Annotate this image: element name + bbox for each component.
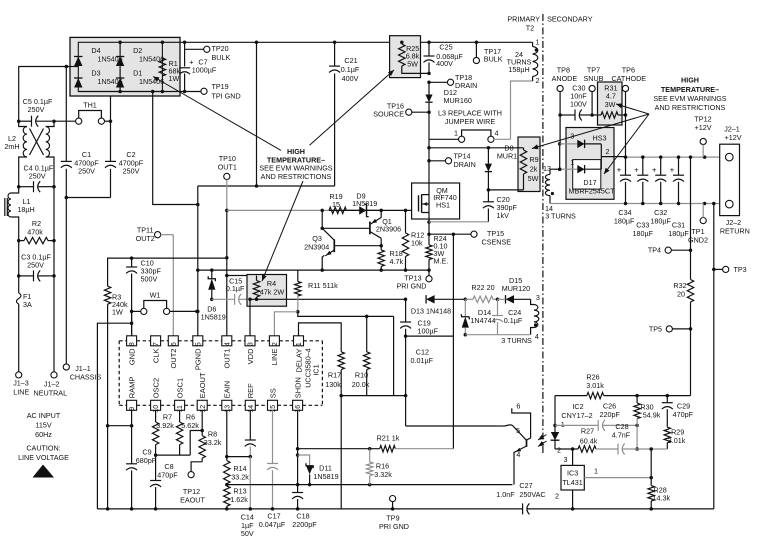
resistor R28 14.3k bbox=[648, 447, 670, 510]
svg-text:1kV: 1kV bbox=[497, 211, 510, 220]
svg-text:1: 1 bbox=[594, 466, 598, 475]
wire return sense column bbox=[712, 204, 716, 509]
fuse F1 3A bbox=[16, 241, 32, 372]
optocoupler arrows bbox=[538, 435, 547, 447]
diode D6 1N5819 bbox=[201, 270, 226, 321]
resistor R30 54.9k bbox=[634, 396, 661, 451]
svg-text:250V: 250V bbox=[123, 167, 140, 176]
svg-text:3.01k: 3.01k bbox=[586, 381, 604, 390]
svg-text:W1: W1 bbox=[150, 291, 161, 300]
svg-text:5W: 5W bbox=[407, 59, 418, 68]
svg-text:250V: 250V bbox=[29, 172, 46, 181]
wire bridge ac right column bbox=[109, 96, 113, 123]
svg-text:+: + bbox=[617, 166, 622, 175]
capacitor C26 220pF bbox=[555, 402, 639, 431]
capacitor C14 1uF 50V bbox=[227, 410, 256, 538]
svg-text:OUT1: OUT1 bbox=[223, 349, 232, 369]
wire bus drop x=256.5 bbox=[198, 41, 258, 188]
capacitor C2 4700pF 250V bbox=[65, 121, 144, 199]
resistor R24 0.10 3W M.E. bbox=[426, 234, 448, 270]
svg-text:13: 13 bbox=[543, 164, 551, 173]
wire out1 row y=210.4 bbox=[227, 209, 406, 211]
svg-text:2: 2 bbox=[272, 342, 279, 346]
svg-text:OUT2: OUT2 bbox=[136, 234, 155, 243]
jumper L3 replace with jumper wire bbox=[429, 109, 511, 143]
test point TP7 SNUB bbox=[584, 66, 604, 116]
svg-text:LINE VOLTAGE: LINE VOLTAGE bbox=[18, 453, 69, 462]
wire led cathode link bbox=[555, 447, 574, 451]
capacitor C24 0.1uF bbox=[492, 299, 523, 334]
junction dots bridge bbox=[118, 41, 186, 94]
svg-text:5W: 5W bbox=[528, 174, 539, 183]
svg-text:18µH: 18µH bbox=[17, 205, 34, 214]
wire +12V rail bbox=[624, 155, 726, 159]
test point TP15 CSENSE bbox=[429, 229, 511, 247]
svg-text:16: 16 bbox=[295, 405, 302, 413]
wire snubber row y=147.8 bbox=[429, 147, 518, 149]
resistor R32 20 bbox=[673, 280, 693, 303]
svg-text:ANODE: ANODE bbox=[552, 74, 578, 83]
svg-text:5: 5 bbox=[195, 342, 202, 346]
capacitor C17 0.047uF bbox=[259, 410, 286, 529]
test point TP12 EAOUT bbox=[180, 462, 205, 505]
svg-text:HS1: HS1 bbox=[436, 201, 450, 210]
shaded box R31 bbox=[598, 82, 623, 125]
diode D11 1N5819 bbox=[298, 455, 339, 486]
svg-text:1: 1 bbox=[561, 420, 565, 429]
connector J2-2 RETURN bbox=[720, 200, 750, 235]
svg-text:54.9k: 54.9k bbox=[643, 411, 661, 420]
svg-text:6: 6 bbox=[171, 342, 178, 346]
svg-text:158µH: 158µH bbox=[508, 65, 529, 74]
resistor R12 10k bbox=[402, 210, 424, 270]
capacitor C25 0.068uF 400V bbox=[424, 43, 464, 76]
svg-text:1: 1 bbox=[454, 129, 458, 138]
svg-text:1N5819: 1N5819 bbox=[313, 472, 338, 481]
jumper W1 bbox=[132, 291, 199, 315]
optocoupler IC2 transistor side bbox=[512, 402, 531, 485]
svg-text:IC1: IC1 bbox=[312, 364, 321, 375]
svg-text:20.0k: 20.0k bbox=[352, 380, 370, 389]
svg-text:2200pF: 2200pF bbox=[292, 520, 317, 529]
svg-text:5: 5 bbox=[516, 426, 520, 435]
mosfet QM IRF740 HS1 bbox=[412, 183, 460, 219]
test point TP4 bbox=[648, 246, 691, 255]
svg-text:1N4744: 1N4744 bbox=[470, 316, 495, 325]
callout arrow to D17 bbox=[604, 114, 649, 174]
svg-text:3: 3 bbox=[536, 293, 540, 302]
svg-text:4: 4 bbox=[516, 450, 520, 459]
svg-text:60Hz: 60Hz bbox=[35, 430, 52, 439]
diode D8 MUR160 bbox=[485, 144, 525, 192]
svg-text:JUMPER WIRE: JUMPER WIRE bbox=[445, 117, 496, 126]
svg-text:BULK: BULK bbox=[484, 55, 503, 64]
wire cs column bbox=[452, 234, 454, 449]
svg-text:LINE: LINE bbox=[270, 349, 279, 366]
label 24 TURNS 158uH bbox=[507, 50, 532, 74]
wire primary gnd bottom rail bbox=[97, 507, 522, 511]
svg-text:14.3k: 14.3k bbox=[653, 494, 671, 503]
capacitor C34 180uF bbox=[614, 157, 635, 225]
label IC2 CNY17-2 bbox=[561, 402, 592, 420]
svg-text:IC3: IC3 bbox=[567, 469, 578, 478]
resistor R2 470k bbox=[17, 219, 56, 244]
svg-text:+: + bbox=[670, 166, 675, 175]
IC U1 UCC3580-4 dashed outline bbox=[119, 341, 322, 406]
svg-text:2k: 2k bbox=[530, 165, 538, 174]
svg-text:SECONDARY: SECONDARY bbox=[547, 15, 593, 24]
label R27 60.4k bbox=[580, 427, 598, 446]
svg-text:CLK: CLK bbox=[151, 349, 160, 364]
bridge inner outline bbox=[78, 42, 162, 91]
wire c10 to pin8 bbox=[131, 311, 133, 335]
svg-text:1000µF: 1000µF bbox=[192, 66, 217, 75]
diode D13 1N4148 bbox=[411, 295, 467, 315]
label CAUTION LINE VOLTAGE bbox=[18, 444, 69, 463]
diode D17 lower half pin 1 bbox=[558, 158, 601, 174]
wire pin8 gnd link bbox=[131, 311, 133, 335]
svg-text:14: 14 bbox=[248, 405, 255, 413]
wire r17 col to gnd rail bbox=[340, 396, 342, 509]
wire pin16 shdn column bbox=[296, 410, 300, 486]
wire output gnd rail bbox=[550, 202, 726, 206]
transformer T2 primary winding bbox=[533, 38, 540, 85]
wire +12 sense column bbox=[689, 157, 693, 331]
svg-text:33.2k: 33.2k bbox=[231, 473, 249, 482]
svg-text:SS: SS bbox=[268, 388, 277, 398]
connector J1-3 LINE bbox=[13, 372, 29, 397]
svg-text:4.7nF: 4.7nF bbox=[612, 431, 631, 440]
wire out2 column x=173.3 bbox=[172, 235, 174, 336]
isolation divider bbox=[542, 14, 544, 455]
svg-text:2: 2 bbox=[555, 492, 559, 501]
resistor R18 4.7k bbox=[378, 246, 403, 270]
svg-text:DRAIN: DRAIN bbox=[455, 81, 477, 90]
callout arrow to R1 bbox=[153, 77, 281, 151]
test point TP17 BULK bbox=[473, 41, 502, 64]
svg-text:130k: 130k bbox=[325, 380, 341, 389]
test point TP11 OUT2 bbox=[136, 226, 174, 244]
svg-text:OUT2: OUT2 bbox=[169, 349, 178, 369]
svg-text:7: 7 bbox=[153, 342, 160, 346]
svg-text:2: 2 bbox=[536, 76, 540, 85]
svg-text:50V: 50V bbox=[241, 529, 254, 538]
svg-text:13: 13 bbox=[224, 405, 231, 413]
wire top left y=66.5 bbox=[19, 67, 79, 122]
wire osc bottom link bbox=[156, 429, 204, 455]
svg-text:470pF: 470pF bbox=[157, 470, 178, 479]
resistor R17 130k bbox=[325, 329, 344, 397]
svg-text:250VAC: 250VAC bbox=[519, 490, 545, 499]
svg-text:GND: GND bbox=[127, 348, 136, 365]
resistor R26 3.01k bbox=[555, 373, 691, 399]
wire chassis column x=66.8 bbox=[65, 67, 67, 364]
svg-text:PRIMARY: PRIMARY bbox=[507, 15, 540, 24]
svg-text:R22 20: R22 20 bbox=[471, 283, 494, 292]
svg-text:60.4k: 60.4k bbox=[580, 437, 598, 446]
wire sec pin13 link bbox=[550, 142, 561, 171]
callout arrow to R25 bbox=[310, 70, 395, 145]
svg-text:HS3: HS3 bbox=[593, 134, 607, 143]
svg-text:DELAY: DELAY bbox=[294, 349, 303, 373]
svg-text:D13 1N4148: D13 1N4148 bbox=[411, 307, 451, 316]
svg-text:0.01µF: 0.01µF bbox=[411, 356, 434, 365]
svg-text:4: 4 bbox=[495, 129, 499, 138]
wire pri gnd rail y=270.1 bbox=[198, 268, 431, 272]
svg-text:1W: 1W bbox=[112, 308, 123, 317]
wire top bus y=42.3 bbox=[162, 41, 532, 43]
wire compensation row y=449 bbox=[573, 444, 668, 455]
svg-text:1: 1 bbox=[570, 158, 574, 167]
svg-text:NEUTRAL: NEUTRAL bbox=[34, 389, 68, 398]
wire drain to mosfet bbox=[427, 139, 431, 183]
wire bridge negative to pgnd bbox=[153, 92, 200, 207]
wire tl431 anode bbox=[571, 490, 575, 511]
test point TP19 TPI GND bbox=[185, 82, 241, 101]
capacitor C7 1000uF bbox=[179, 42, 217, 91]
resistor R10 20.0k bbox=[352, 316, 370, 395]
svg-text:180µF: 180µF bbox=[633, 229, 654, 238]
svg-text:2N3904: 2N3904 bbox=[304, 243, 329, 252]
junction dot x=66 top bbox=[65, 65, 69, 69]
diode D15 MUR120 bbox=[498, 276, 531, 304]
svg-text:1: 1 bbox=[536, 38, 540, 47]
callout arrow to R4 bbox=[262, 181, 303, 281]
wire pin12 eaout drop bbox=[201, 410, 203, 430]
wire out1 column x=226.8 bbox=[225, 209, 229, 336]
diode D2 1N5406 bbox=[116, 46, 164, 66]
thermistor TH1 bbox=[54, 101, 111, 125]
wire bias winding bottom bbox=[465, 335, 532, 345]
test point TP14 DRAIN bbox=[427, 152, 476, 170]
svg-text:TP4: TP4 bbox=[648, 246, 661, 255]
wire secondary gnd bottom rail bbox=[573, 508, 714, 510]
svg-text:0.047µF: 0.047µF bbox=[259, 520, 286, 529]
wire q1 base drop bbox=[320, 209, 324, 230]
resistor R13 1.62k bbox=[224, 486, 249, 511]
svg-text:15: 15 bbox=[270, 405, 277, 413]
wire r32 bottom bbox=[690, 302, 692, 396]
svg-text:1.62k: 1.62k bbox=[230, 495, 248, 504]
svg-text:REF: REF bbox=[246, 383, 255, 398]
wire bridge mid column bbox=[119, 42, 121, 91]
resistor R31 4.7 3W bbox=[592, 84, 627, 119]
svg-text:T2: T2 bbox=[526, 24, 534, 33]
svg-text:R11 511k: R11 511k bbox=[308, 281, 338, 290]
svg-text:400V: 400V bbox=[342, 74, 359, 83]
connector J1-1 CHASSIS bbox=[63, 364, 101, 382]
svg-text:3: 3 bbox=[564, 455, 568, 464]
resistor R11 511k bbox=[295, 276, 339, 314]
capacitor C33 180uF bbox=[633, 157, 654, 238]
resistor R16 3.32k bbox=[367, 449, 393, 485]
svg-text:2: 2 bbox=[606, 147, 610, 156]
resistor R9 2k 5W bbox=[488, 148, 538, 190]
svg-text:8: 8 bbox=[129, 342, 136, 346]
capacitor C9 680pF bbox=[126, 426, 157, 511]
inner outline D17 bbox=[573, 160, 601, 190]
svg-text:TEMPERATURE–: TEMPERATURE– bbox=[661, 85, 719, 94]
svg-text:250V: 250V bbox=[28, 105, 45, 114]
wire pin1 delay link bbox=[299, 323, 342, 336]
svg-text:+12V: +12V bbox=[725, 133, 742, 142]
callout arrow to R9 bbox=[532, 114, 649, 149]
svg-text:3 TURNS: 3 TURNS bbox=[501, 336, 532, 345]
svg-text:+: + bbox=[652, 166, 657, 175]
inductor L2 2mH common-mode choke bbox=[4, 121, 54, 187]
svg-text:3.01k: 3.01k bbox=[668, 436, 686, 445]
svg-text:12: 12 bbox=[200, 405, 207, 413]
svg-text:TL431: TL431 bbox=[562, 478, 582, 487]
svg-text:IC2: IC2 bbox=[572, 402, 583, 411]
svg-text:HIGH: HIGH bbox=[681, 76, 699, 85]
svg-text:500V: 500V bbox=[141, 275, 158, 284]
label UCC3580-4 IC1 bbox=[304, 348, 321, 388]
svg-text:9: 9 bbox=[129, 407, 136, 411]
capacitor C27 1.0nF 250VAC bbox=[496, 481, 572, 514]
svg-text:180µF: 180µF bbox=[614, 217, 635, 226]
wire vdd feed line y=299.3 bbox=[248, 298, 407, 302]
svg-text:+12V: +12V bbox=[695, 123, 712, 132]
diode D1 1N5406 bbox=[116, 69, 164, 88]
svg-text:1.0nF: 1.0nF bbox=[496, 490, 515, 499]
svg-text:SHDN: SHDN bbox=[293, 377, 302, 398]
svg-text:TH1: TH1 bbox=[83, 101, 97, 110]
resistor R14 33.2k bbox=[224, 457, 250, 487]
svg-text:400V: 400V bbox=[436, 59, 453, 68]
svg-text:R17: R17 bbox=[328, 371, 341, 380]
wire tl431 ref bbox=[584, 466, 653, 479]
wire line pin2 route bbox=[274, 312, 297, 336]
wire D17 common cathode bbox=[601, 144, 625, 169]
wire neutral column bbox=[53, 187, 55, 372]
inductor L1 18uH bbox=[5, 187, 35, 241]
capacitor C19 100uF bbox=[400, 299, 439, 338]
svg-text:EAOUT: EAOUT bbox=[198, 372, 207, 398]
svg-text:TP3: TP3 bbox=[734, 265, 747, 274]
test point TP12 +12V bbox=[694, 115, 711, 158]
wire T2 pin2 route bbox=[511, 81, 533, 139]
svg-text:OUT1: OUT1 bbox=[218, 163, 237, 172]
optocoupler LED bbox=[551, 396, 565, 455]
svg-text:MUR160: MUR160 bbox=[444, 96, 472, 105]
svg-text:47k 2W: 47k 2W bbox=[260, 288, 285, 297]
wire bridge bottom bbox=[78, 91, 184, 93]
resistor R3 240k 1W bbox=[104, 286, 128, 316]
label HIGH TEMPERATURE left bbox=[259, 147, 332, 181]
IC IC3 TL431 bbox=[555, 449, 584, 501]
wire r11 top to rail bbox=[297, 270, 299, 275]
diode D12 MUR160 bbox=[425, 82, 471, 112]
svg-text:100V: 100V bbox=[570, 100, 587, 109]
svg-text:1: 1 bbox=[296, 342, 303, 346]
svg-text:TPI GND: TPI GND bbox=[212, 92, 241, 101]
connector J2 box bbox=[720, 144, 740, 215]
svg-text:1N5406: 1N5406 bbox=[139, 77, 164, 86]
svg-text:M.E.: M.E. bbox=[434, 257, 449, 266]
capacitor C20 390pF 1kV bbox=[429, 190, 517, 222]
test point TP10 OUT1 bbox=[218, 154, 237, 210]
svg-text:6: 6 bbox=[516, 402, 520, 411]
svg-text:SEE EVM WARNINGS: SEE EVM WARNINGS bbox=[653, 94, 726, 103]
bias winding T2 pins 3-4 bbox=[531, 293, 540, 341]
capacitor C1 4700pF 250V bbox=[61, 150, 99, 176]
svg-text:DRAIN: DRAIN bbox=[454, 160, 476, 169]
svg-text:220pF: 220pF bbox=[600, 410, 621, 419]
test point TP1 GND2 bbox=[688, 204, 708, 245]
svg-text:33.2k: 33.2k bbox=[204, 438, 222, 447]
diode D9 1N5819 bbox=[346, 192, 381, 217]
svg-text:R21 1k: R21 1k bbox=[377, 434, 400, 443]
wire R4 top link bbox=[227, 275, 257, 277]
svg-text:0.1µF: 0.1µF bbox=[226, 284, 245, 293]
svg-text:SOURCE: SOURCE bbox=[373, 110, 404, 119]
test point TP13 PRI GND bbox=[397, 270, 433, 291]
shaded box D17 heatsink bbox=[566, 128, 614, 200]
wire eain feedback row y=484.6 bbox=[227, 483, 513, 487]
svg-text:EAOUT: EAOUT bbox=[180, 496, 205, 505]
svg-text:470k: 470k bbox=[27, 228, 43, 237]
capacitor C32 180uF bbox=[650, 157, 671, 225]
svg-text:RAMP: RAMP bbox=[127, 377, 136, 399]
capacitor C5 0.1uF 250V bbox=[17, 97, 56, 127]
svg-text:2N3906: 2N3906 bbox=[376, 225, 401, 234]
transformer T2 secondary winding 13-14 bbox=[543, 164, 576, 221]
resistor R1 68k 1W bbox=[159, 58, 180, 83]
test point TP20 BULK bbox=[185, 44, 231, 62]
svg-text:250V: 250V bbox=[78, 167, 95, 176]
shaded box R25 bbox=[390, 36, 421, 78]
wire cs link y=336 bbox=[406, 335, 454, 337]
label C12 0.01uF bbox=[411, 348, 434, 366]
svg-text:VDD: VDD bbox=[246, 348, 255, 364]
label AC INPUT 115V 60Hz bbox=[27, 411, 61, 439]
wire gate link bbox=[404, 209, 419, 213]
diode D17 upper half pin 3 bbox=[560, 132, 607, 149]
svg-text:3: 3 bbox=[248, 342, 255, 346]
resistor R29 3.01k bbox=[664, 427, 686, 449]
svg-text:RETURN: RETURN bbox=[720, 227, 750, 236]
resistor R19 15 bbox=[329, 192, 346, 214]
resistor R4 47k 2W bbox=[253, 276, 284, 302]
svg-text:R27: R27 bbox=[581, 427, 594, 436]
svg-text:4.7k: 4.7k bbox=[390, 257, 404, 266]
connector J1-2 NEUTRAL bbox=[34, 372, 68, 398]
capacitor C8 470pF bbox=[150, 455, 178, 511]
svg-text:470pF: 470pF bbox=[673, 410, 694, 419]
resistor R22 20 bbox=[465, 283, 499, 303]
svg-text:3.92k: 3.92k bbox=[156, 421, 174, 430]
svg-text:AND RESTRICTIONS: AND RESTRICTIONS bbox=[261, 172, 332, 181]
svg-text:CSENSE: CSENSE bbox=[482, 238, 512, 247]
svg-text:OSC2: OSC2 bbox=[151, 378, 160, 398]
capacitor C4 0.1uF 250V bbox=[17, 164, 56, 193]
diode D3 1N5406 bbox=[74, 69, 123, 88]
wire delay bottom row y=395.6 bbox=[341, 394, 407, 398]
svg-text:J1–2: J1–2 bbox=[44, 379, 60, 388]
svg-text:5.62k: 5.62k bbox=[181, 421, 199, 430]
svg-text:MUR120: MUR120 bbox=[502, 284, 530, 293]
svg-text:TP20: TP20 bbox=[212, 44, 229, 53]
svg-text:TP19: TP19 bbox=[212, 82, 229, 91]
svg-text:J1–3: J1–3 bbox=[13, 379, 29, 388]
transistor Q3 2N3904 bbox=[304, 228, 381, 270]
wire drain column to L3 bbox=[428, 112, 430, 139]
svg-text:OSC1: OSC1 bbox=[175, 378, 184, 398]
svg-text:MBRF2545CT: MBRF2545CT bbox=[569, 187, 616, 196]
transformer T2 label bbox=[526, 24, 534, 33]
IC U1 bottom row pins 9-16 bbox=[127, 372, 303, 413]
